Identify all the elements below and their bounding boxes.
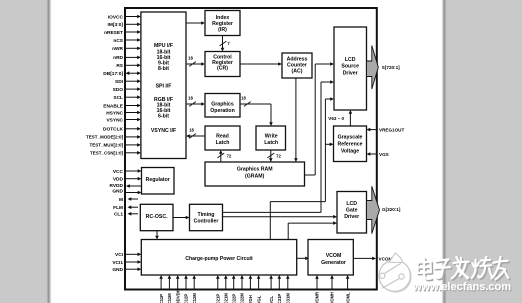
svg-text:72: 72 (276, 154, 281, 159)
svg-text:DB[17:0]: DB[17:0] (103, 71, 123, 77)
svg-text:8-bit: 8-bit (158, 66, 169, 72)
svg-text:Source: Source (341, 64, 359, 70)
svg-text:www.elecfans.com: www.elecfans.com (412, 281, 511, 293)
svg-text:Controller: Controller (194, 218, 219, 224)
svg-text:Regulator: Regulator (146, 177, 170, 183)
svg-text:Charge-pump Power Circuit: Charge-pump Power Circuit (185, 256, 253, 262)
svg-text:DDVDH: DDVDH (175, 289, 180, 303)
svg-text:C21M: C21M (224, 293, 229, 303)
svg-text:VGL: VGL (256, 295, 261, 303)
svg-text:SPI I/F: SPI I/F (156, 84, 172, 90)
svg-text:TEST_MODE[2:0]: TEST_MODE[2:0] (86, 135, 124, 140)
svg-text:C21P: C21P (216, 294, 221, 303)
svg-text:ENABLE: ENABLE (103, 103, 124, 109)
svg-text:VCI1: VCI1 (112, 260, 123, 266)
svg-text:Driver: Driver (343, 70, 358, 76)
svg-text:IM[3:0]: IM[3:0] (108, 22, 124, 28)
svg-text:VSYNC I/F: VSYNC I/F (151, 128, 176, 134)
svg-text:IOVCC: IOVCC (108, 14, 124, 20)
svg-text:VSYNC: VSYNC (106, 117, 123, 123)
svg-text:Grayscale: Grayscale (338, 135, 363, 141)
svg-text:(GRAM): (GRAM) (245, 174, 265, 180)
svg-text:6-bit: 6-bit (158, 113, 169, 119)
svg-text:RVDD: RVDD (109, 183, 123, 189)
svg-text:TEST_CSN[1:0]: TEST_CSN[1:0] (90, 151, 124, 156)
svg-text:MPU I/F: MPU I/F (154, 43, 173, 49)
svg-text:C12M: C12M (192, 293, 197, 303)
svg-text:C31P: C31P (277, 294, 282, 303)
svg-text:18: 18 (189, 128, 194, 133)
svg-text:M: M (119, 197, 123, 203)
svg-text:C31M: C31M (286, 293, 291, 303)
svg-text:TEST_MUX[2:0]: TEST_MUX[2:0] (89, 143, 123, 148)
svg-text:C22P: C22P (231, 294, 236, 303)
svg-text:RC-OSC.: RC-OSC. (146, 214, 168, 220)
svg-text:LCD: LCD (345, 57, 356, 63)
svg-text:Voltage: Voltage (341, 148, 359, 154)
svg-text:VCC: VCC (113, 169, 124, 175)
svg-text:C22M: C22M (240, 293, 245, 303)
svg-text:nWR: nWR (112, 46, 123, 52)
svg-text:GND: GND (112, 267, 123, 273)
svg-text:VCI: VCI (115, 252, 124, 258)
svg-text:18: 18 (188, 56, 193, 61)
svg-text:VREG1OUT: VREG1OUT (379, 127, 404, 132)
svg-text:G[320:1]: G[320:1] (382, 207, 401, 212)
svg-text:(IR): (IR) (218, 27, 227, 33)
svg-text:(CR): (CR) (217, 66, 228, 72)
svg-text:HSYNC: HSYNC (106, 110, 123, 116)
svg-text:VGH: VGH (248, 295, 253, 303)
svg-text:Timing: Timing (198, 212, 215, 218)
svg-text:VDD: VDD (113, 177, 124, 183)
svg-text:DOTCLK: DOTCLK (103, 127, 124, 133)
svg-text:V63 – 0: V63 – 0 (328, 116, 344, 121)
svg-text:Gate: Gate (346, 208, 358, 214)
svg-text:SCL: SCL (113, 95, 123, 101)
svg-text:SDI: SDI (115, 79, 124, 85)
svg-text:Generator: Generator (321, 260, 346, 266)
svg-text:VCMH: VCMH (330, 292, 335, 303)
svg-text:C11M: C11M (167, 293, 172, 303)
svg-text:72: 72 (227, 154, 232, 159)
svg-text:Reference: Reference (337, 141, 362, 147)
svg-text:nRD: nRD (113, 55, 123, 61)
svg-text:Counter: Counter (287, 62, 307, 68)
svg-text:S[720:1]: S[720:1] (382, 65, 400, 70)
svg-text:SDO: SDO (113, 87, 124, 93)
svg-text:GND: GND (112, 189, 123, 195)
svg-text:VCML: VCML (345, 292, 350, 303)
svg-text:nRESET: nRESET (104, 30, 123, 36)
svg-text:VGS: VGS (379, 152, 389, 157)
svg-text:C12P: C12P (184, 294, 189, 303)
svg-text:C11P: C11P (159, 294, 164, 303)
svg-text:Operation: Operation (210, 108, 235, 114)
svg-text:18: 18 (188, 96, 193, 101)
svg-text:Driver: Driver (344, 214, 359, 220)
svg-text:Read: Read (216, 134, 229, 140)
svg-text:18: 18 (241, 96, 246, 101)
svg-text:(AC): (AC) (292, 68, 303, 74)
svg-text:LCD: LCD (346, 201, 357, 207)
svg-text:VCOM: VCOM (326, 253, 342, 259)
svg-text:Write: Write (265, 134, 278, 140)
svg-text:VCMR: VCMR (315, 291, 320, 303)
svg-text:Latch: Latch (264, 140, 278, 146)
svg-text:Latch: Latch (216, 140, 230, 146)
svg-text:FLM: FLM (113, 205, 123, 211)
svg-text:Graphics RAM: Graphics RAM (237, 167, 273, 173)
svg-text:Graphics: Graphics (211, 101, 234, 107)
svg-text:RS: RS (116, 63, 123, 69)
svg-text:VCL: VCL (269, 296, 274, 303)
svg-text:nCS: nCS (113, 38, 123, 44)
svg-text:CL1: CL1 (114, 212, 123, 218)
